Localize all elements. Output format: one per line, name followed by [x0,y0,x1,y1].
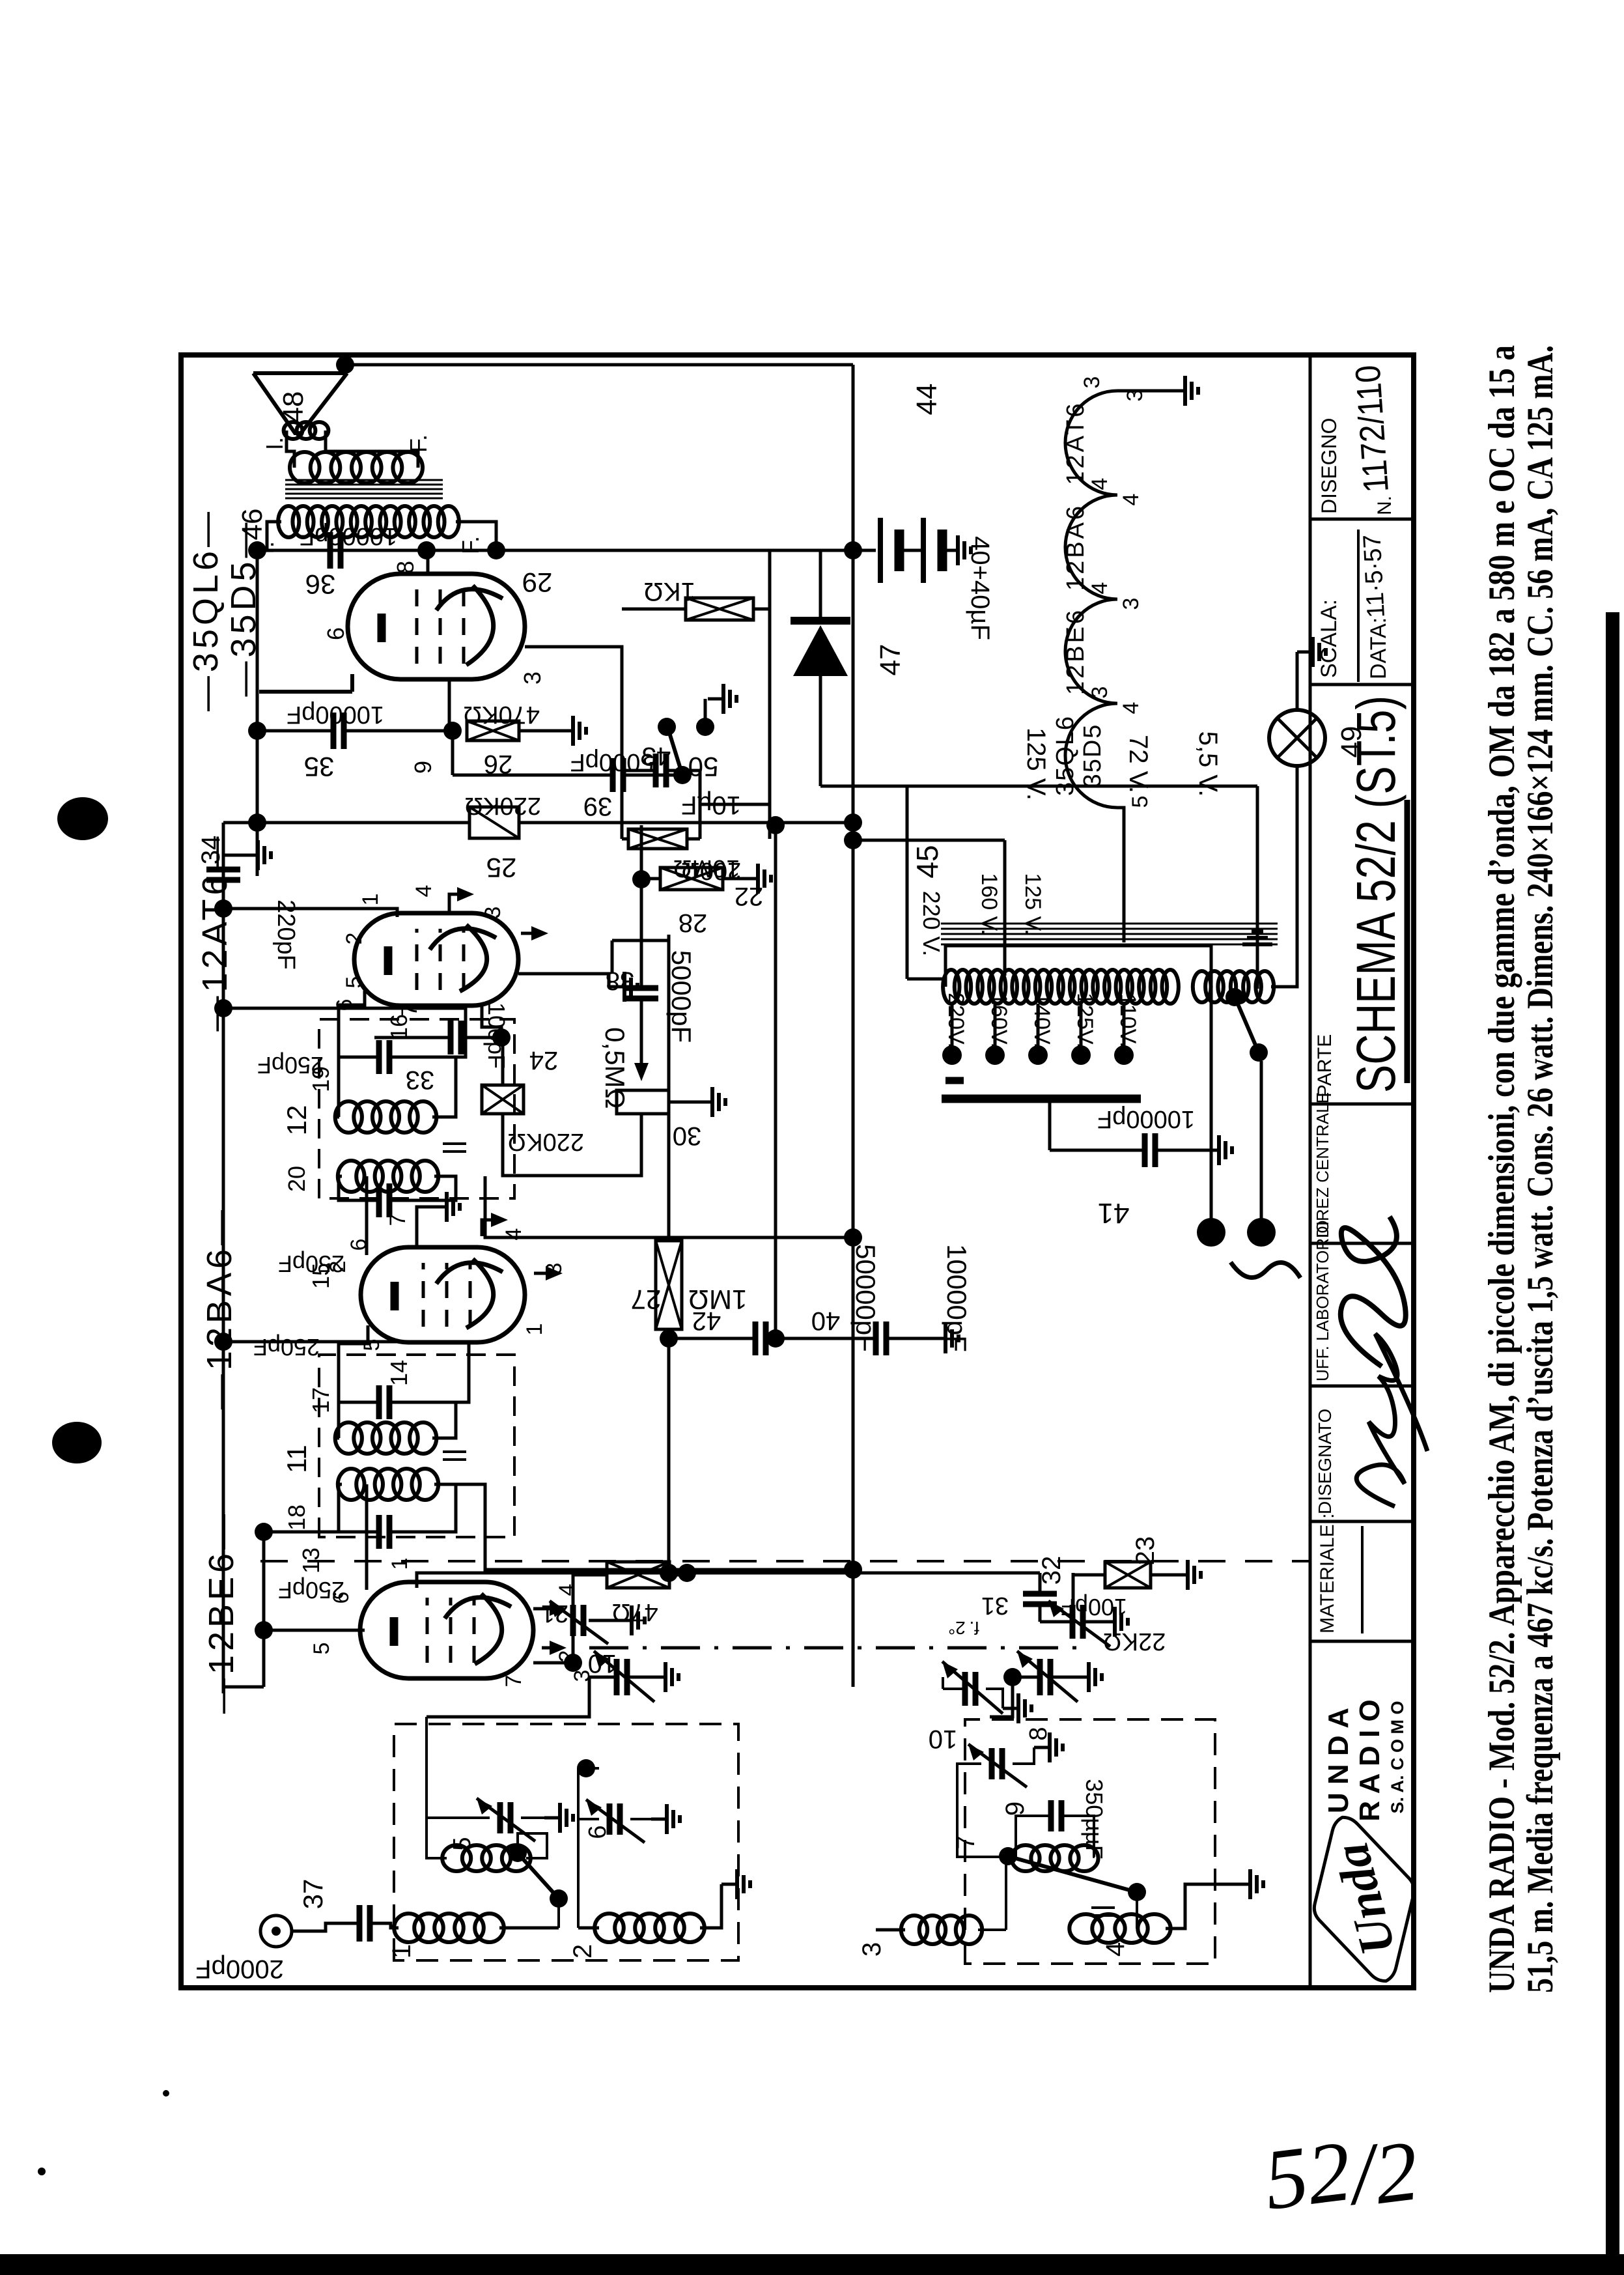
long dashed AVC line [260,1560,1309,1562]
label F pri [457,536,484,554]
svg-text:7: 7 [385,1214,410,1226]
ground res26 [557,716,586,746]
wire cap43 top [622,769,656,772]
label tap 140V. [1029,993,1054,1049]
antenna jack 37 [260,1915,292,1947]
label 10b [929,1725,958,1753]
title scala line [1357,530,1360,682]
wire osc top link [942,1677,944,1689]
tap wire 110V. [1123,1004,1126,1055]
wire IF11 avc [223,1342,469,1402]
label coil 4 [1101,1942,1130,1957]
svg-text:4: 4 [501,1228,526,1241]
label 23 [1131,1536,1160,1566]
wire V1 osc grid [533,1575,607,1663]
label I pri [252,541,279,554]
label pin1 V3 [358,894,383,906]
bus AVC (v=343) [222,823,225,1693]
wire 125V line [853,840,1005,976]
wire diode cathode [819,550,822,621]
label F sec [405,434,432,453]
label -12AT6- [195,832,234,1031]
svg-text:34: 34 [197,836,225,865]
transformer 45 secondary winding [1193,971,1274,1002]
label 10000pF (41) [1097,1105,1195,1133]
title divider 4 [1310,1242,1414,1245]
node cap42 top [660,1329,678,1348]
svg-text:125 V.: 125 V. [1020,873,1045,935]
svg-text:PARTE: PARTE [1314,1034,1336,1097]
tube V3 12AT6 [354,913,518,1006]
label 12 [281,1105,312,1136]
label pin7 V3 [397,1004,422,1017]
svg-text:28: 28 [679,909,708,937]
wire res26 bottom [519,729,557,733]
wire ant to cap37 [292,1923,359,1931]
line B v=1191 [774,823,777,1338]
wire IF12 avc return [223,1008,466,1057]
label -35D5- [224,518,263,696]
label pin3 V2 [542,1263,567,1275]
svg-text:9: 9 [410,761,436,774]
label pin6 V4 [322,627,349,640]
wire switch run [1256,786,1259,989]
svg-text:3: 3 [1080,376,1104,389]
output transformer 46 primary winding [278,506,459,537]
node IF12 feed [844,1228,862,1247]
capacitor 43 10uF [656,754,666,787]
label pin9 V4 [410,761,436,774]
ground stub avc [223,840,271,870]
ground switch sideways [1242,931,1272,966]
svg-text:12AT6: 12AT6 [1062,401,1089,485]
selector plug mark [945,1077,964,1084]
trimmer 5 [477,1798,535,1841]
label 10000pF (40) [942,1244,972,1352]
label 50 [688,752,719,782]
wire cap37 to coil1 [370,1923,399,1928]
label 49 [1336,726,1367,758]
OC oscillator coil [1011,1845,1098,1871]
svg-text:30: 30 [673,1122,702,1150]
wire V1 g1 long line [417,1573,1040,1588]
tuner box 1 dashed [394,1724,738,1960]
label pin1 V2 [522,1323,547,1336]
label 22 [735,882,764,911]
node cap42 bottom [766,1329,785,1348]
wire gang10b link [990,1677,1013,1717]
svg-text:10MΩ: 10MΩ [673,855,740,882]
trimmer 6 ground [630,1804,680,1834]
wire filament right end [1117,389,1169,393]
title DATA [1358,534,1391,679]
capacitor 39 5000pF [613,758,623,792]
resistor 28 10Mohm [660,868,723,890]
title PARTE [1314,1034,1336,1097]
IF 11 coil right [335,1422,437,1454]
wire trim7 top [957,1764,1016,1857]
svg-text:5: 5 [1128,796,1153,808]
wire coil3 top [876,1929,905,1932]
svg-text:37: 37 [298,1879,328,1910]
wire cap35 line [257,729,449,733]
svg-text:4: 4 [1087,582,1112,595]
svg-text:50: 50 [688,752,719,782]
svg-text:40: 40 [811,1307,841,1335]
resistor 23 22K [1105,1562,1151,1588]
label 5000pF (38) [666,950,697,1043]
wire trim5 to occoil [427,1818,447,1858]
label coil 1 [387,1944,416,1958]
tap wire 125V. [1080,1004,1083,1055]
svg-text:5: 5 [449,1837,476,1850]
svg-text:42: 42 [692,1307,721,1335]
trimmer 6 [586,1800,645,1843]
wire res28 top [641,877,660,881]
node cap35 top [248,722,266,740]
wire N1 riser [578,1768,599,1928]
wire rc top rail [622,770,628,839]
IF 12 coupling marks [443,1144,466,1152]
label pin8 V4 [392,561,419,574]
node IF11 avc [214,1333,232,1351]
node plate line B [417,541,436,559]
switch 50 [658,718,692,784]
svg-text:4: 4 [412,885,436,897]
capacitor 33 100pF [451,1021,461,1054]
node res25 B+ [844,813,862,832]
wire cap41 gnd [1155,1135,1232,1165]
svg-text:72 V.: 72 V. [1124,735,1153,793]
svg-text:220KΩ: 220KΩ [464,792,541,819]
label 16 [385,1014,412,1040]
wire cap44 mid [899,549,923,552]
capacitor 31 ground [1083,1607,1128,1637]
trimmer 7 [968,1744,1027,1787]
label 28 [679,909,708,937]
label f.a.2 [948,1618,979,1638]
svg-text:9: 9 [1001,1802,1029,1816]
svg-text:8: 8 [392,561,419,574]
svg-text:f. 2°: f. 2° [948,1618,979,1638]
wire IF11 Bplus [456,1484,853,1570]
label 21 [541,1600,568,1627]
label 40+40uF [966,536,994,640]
svg-text:140V.: 140V. [1029,993,1054,1049]
label 10a [588,1649,617,1678]
wire coil3 bottom [978,1929,1006,1931]
label 2000pF (37) [195,1955,284,1983]
svg-text:3: 3 [1123,389,1147,402]
svg-text:4: 4 [1119,494,1143,506]
wire gang10a top [589,1676,617,1679]
svg-text:5: 5 [309,1643,334,1655]
svg-text:14: 14 [385,1360,412,1386]
svg-text:160 V.: 160 V. [977,873,1001,935]
title N 1172/110 [1348,364,1396,515]
punch hole 2 [52,1422,102,1463]
IF 12 wiring left top [339,1176,379,1200]
wire cap39 to switch [623,774,680,777]
capacitor 44b plates [923,518,942,583]
svg-text:29: 29 [522,567,553,598]
svg-text:—35QL6—: —35QL6— [186,508,225,711]
caption line 2 [1520,345,1561,1993]
labels fil pins [1080,376,1153,808]
title DISEGNO [1317,417,1341,514]
wire 5.5V tap [1271,766,1297,987]
band switch box2 [999,1847,1146,1901]
label 36 [305,569,336,600]
svg-text:36: 36 [305,569,336,600]
tap wire 220V. [951,1004,954,1055]
label 44 [911,384,943,416]
wire rc bottom rail [666,770,700,839]
capacitor 40 10000pF [876,1321,886,1355]
svg-text:5000pF: 5000pF [666,950,697,1043]
label 29 [522,567,553,598]
svg-text:45: 45 [910,845,944,878]
wire pin6 V4 [259,674,352,692]
title SCHEMA [1345,696,1407,1093]
mains plug dots [1197,1218,1276,1247]
svg-text:2: 2 [342,933,367,945]
svg-text:3: 3 [858,1942,886,1957]
wire trim6 top [578,1768,599,1819]
svg-text:DIREZ CENTRALE: DIREZ CENTRALE [1313,1092,1332,1238]
svg-text:31: 31 [981,1592,1009,1619]
res23 top lead [1073,1575,1105,1622]
svg-text:1: 1 [387,1944,416,1958]
svg-text:10000pF: 10000pF [287,701,384,728]
IF 12 cap left [379,1183,389,1217]
svg-text:47: 47 [875,644,906,676]
label pin3 V4 [519,671,546,685]
IF 11 wiring left top [339,1484,379,1532]
svg-text:3: 3 [1119,598,1143,610]
title strip top line [1309,355,1312,1988]
selector bar [942,1095,1141,1103]
label fil 12BA6 [1062,503,1089,591]
svg-text:18: 18 [283,1505,310,1531]
tap terminal 125V. [1071,1045,1091,1065]
label 50000pF [850,1244,881,1352]
label -12BE6- [202,1510,241,1714]
label 10Mohm [673,855,740,882]
svg-text:10: 10 [588,1649,617,1678]
ground trim21 [589,1605,645,1635]
label 250pF (16) [257,1052,324,1079]
label 17 [307,1387,334,1413]
wire switch riser to diode [820,785,1257,788]
svg-text:33: 33 [406,1066,435,1094]
label pin3 V3 [481,907,505,919]
output transformer 46 secondary F winding [290,452,423,483]
label 47ohm [611,1598,658,1626]
tap terminal 110V. [1114,1045,1134,1065]
wire lamp right [1296,652,1299,710]
wire cap13 top lead [269,1531,379,1534]
wire V1 plate wire [365,1484,369,1590]
title divider 5 [1310,1103,1414,1106]
svg-text:—12BE6—: —12BE6— [202,1510,241,1714]
label pin2 V1 [555,1650,580,1663]
label 22K (23) [1103,1628,1166,1655]
label tap 220V. [944,993,968,1049]
svg-text:DATA:: DATA: [1366,617,1391,679]
IF 11 coupling marks [443,1452,466,1460]
label 100pF (33) [483,1002,510,1069]
antenna coil 2 [595,1914,705,1942]
svg-text:7: 7 [501,1675,526,1688]
label pin6 V2 [346,1239,371,1251]
label 125V [1022,728,1050,800]
label 5000pF (39) [570,748,654,776]
label 20 [283,1166,310,1192]
band switch box1 [509,1844,568,1908]
wire rc to v1182 [700,803,770,806]
wire plate line gap fix [262,549,427,552]
small speck [38,2090,169,2175]
IF transformer 11 dashed box [319,1355,514,1537]
svg-text:5: 5 [359,1339,384,1351]
svg-text:52/2: 52/2 [1259,2114,1423,2235]
OC antenna coil [442,1845,531,1871]
ground pot30 [669,1087,725,1117]
transformer 45 laminations [941,924,1278,944]
IF 11 wiring right bottom [389,1402,456,1438]
gang capacitor 10b [1017,1651,1078,1702]
IF 11 cap left [379,1515,389,1549]
svg-text:I.: I. [261,437,288,450]
link v343-v395 [223,821,257,825]
wire occoil bottom [518,1833,547,1858]
svg-text:6: 6 [584,1825,611,1839]
gang dash-dot line [589,1646,1078,1650]
svg-text:11: 11 [281,1445,312,1473]
svg-text:2: 2 [326,1261,350,1273]
node V1 cathode rail [255,1621,273,1639]
V2 heater arrow 3 [534,1266,563,1280]
node riser top [336,356,354,374]
wire gang10a gnd [627,1662,679,1692]
label 250pF (13) [278,1577,344,1604]
wire cap32 inline [1039,1573,1042,1622]
svg-text:Unda: Unda [1324,1837,1406,1960]
svg-text:10000pF: 10000pF [1097,1105,1195,1133]
svg-text:6: 6 [329,1592,354,1604]
capacitor 37 2000pF [359,1905,370,1942]
wire IF11-V2 grid [339,1325,368,1402]
label tap 110V. [1115,993,1140,1047]
label pin5 V2 [359,1339,384,1351]
label 15 [307,1263,334,1289]
svg-text:1: 1 [358,894,383,906]
antenna coil 1 [394,1914,504,1942]
elbow v405-v343 [223,1686,264,1689]
wire res24 right [501,1038,505,1085]
rail v395 [256,550,259,876]
node IF12 avc [214,999,232,1017]
rail v405 [262,1532,266,1687]
label fil 12BE6 [1062,608,1089,695]
capacitor 34 220pF [206,869,240,880]
svg-text:5: 5 [342,976,367,989]
bus B+ (v=1310) [852,365,855,1687]
IF 11 cap right [379,1385,389,1419]
node osc grid [564,1654,582,1672]
label pin1 V1 [387,1558,412,1570]
IF 12 coil right [335,1101,437,1133]
scan edge strip [1606,612,1619,2254]
label 13 [298,1547,324,1574]
svg-text:N.: N. [1374,496,1395,515]
ground V3 cathode [609,972,637,1002]
label 1Mohm [688,1284,748,1315]
label fil 12AT6 [1062,401,1089,485]
mains cord squiggle [1231,1262,1300,1278]
svg-text:125V.: 125V. [1072,993,1097,1049]
label 125V outer [1020,873,1045,935]
wire pin8 stub [427,550,430,572]
svg-text:10000pF: 10000pF [942,1244,972,1352]
resistor 22 200ohm [628,829,687,849]
coupling marks box2 [1091,1908,1115,1915]
label 37 [298,1879,328,1910]
svg-text:DISEGNO: DISEGNO [1317,417,1341,514]
capacitor 36 10000pF [330,532,341,569]
svg-text:10000pF: 10000pF [300,522,397,550]
IF 12 wiring right top [339,1057,379,1117]
wire cap40 gnd [886,1323,959,1353]
wire voicecoil to sec top [287,431,294,468]
label 6 trim [584,1825,611,1839]
resistor 29 1K [686,598,753,620]
logo text RADIO [1354,1699,1386,1821]
label 33 [406,1066,435,1094]
svg-text:2000pF: 2000pF [195,1955,284,1983]
label pin3 V1 [570,1670,595,1682]
speaker 48 cone [253,373,347,433]
title divider 7 [1310,518,1414,521]
label pin4 V2 [501,1228,526,1241]
node lineA left [660,1564,678,1582]
node lineB riser [766,816,785,834]
svg-text:35: 35 [304,752,335,782]
svg-text:49: 49 [1336,726,1367,758]
IF 12 cap right [379,1040,389,1074]
tube V2 12BA6 [361,1247,525,1342]
svg-text:12: 12 [281,1105,312,1136]
wire V1 cathode riser [269,1629,365,1632]
capacitor 41 [1145,1133,1155,1167]
svg-text:220 V.: 220 V. [918,891,945,957]
label 8 trim [1025,1727,1052,1740]
svg-text:24: 24 [529,1046,559,1075]
label 0,5Mohm [600,1027,630,1109]
wire grid stub to tube [448,678,451,731]
label tap 125V. [1072,993,1097,1049]
wire V2 pin7 gnd [417,1192,460,1247]
node IF11 feed [844,1561,862,1579]
tube V1 12BE6 [360,1582,533,1678]
handwritten 52/2 [1259,2114,1423,2235]
node primary bottom [487,541,505,559]
node N1 [577,1759,595,1777]
trimmer 7 ground [1013,1732,1063,1764]
wire trim8 top [943,1688,965,1690]
wire ant gang link [427,1677,589,1717]
